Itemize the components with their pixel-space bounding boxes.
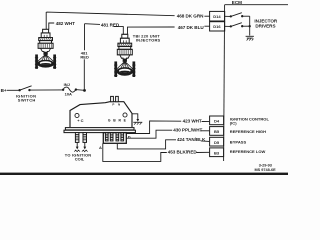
svg-text:B5: B5 xyxy=(214,129,220,134)
svg-text:INJECTORS: INJECTORS xyxy=(136,38,161,43)
wire 482 WHT (injector 1 feed) xyxy=(49,23,54,29)
tick 453 to B3 xyxy=(196,151,209,153)
terminal B5 (ECM) xyxy=(210,127,224,136)
wire 467 DK BLU (injector 2 to ECM D16) xyxy=(128,27,175,34)
wire 424 TAN/BLK xyxy=(117,140,176,149)
junction dot (fused feed) xyxy=(83,89,86,92)
svg-text:D16: D16 xyxy=(213,24,221,29)
svg-text:P N: P N xyxy=(112,103,121,107)
terminal B3 (ECM) xyxy=(210,148,224,157)
svg-text:423 WHT: 423 WHT xyxy=(183,119,202,124)
terminal D14 (ECM) xyxy=(210,11,225,21)
svg-text:430 PPL/WHT: 430 PPL/WHT xyxy=(173,128,202,133)
wire D16 to driver switch 2 xyxy=(225,25,231,27)
terminal D16 (ECM) xyxy=(210,22,225,31)
driver common wire xyxy=(249,16,251,35)
pin 1 xyxy=(105,133,108,141)
module coil pin 1 xyxy=(75,133,79,143)
injector 1 (TBI unit injector) xyxy=(35,29,56,69)
module base plate xyxy=(65,128,134,130)
tick 423 to D4 xyxy=(202,120,210,122)
svg-text:RED: RED xyxy=(80,54,89,59)
terminal D4 (ECM) xyxy=(210,116,224,125)
ECM enclosure top edge xyxy=(225,4,288,6)
svg-text:468 DK GRN: 468 DK GRN xyxy=(177,13,204,18)
svg-text:MS 9748-6E: MS 9748-6E xyxy=(255,168,277,172)
pin 2 xyxy=(110,133,113,141)
svg-text:REFERENCE HIGH: REFERENCE HIGH xyxy=(230,129,266,134)
module mounting hole left xyxy=(75,113,79,117)
wire B+ to ignition switch xyxy=(7,89,19,91)
svg-text:D4: D4 xyxy=(214,119,220,124)
wire switch to fuse xyxy=(31,89,63,91)
terminal D5 (ECM) xyxy=(210,137,224,146)
svg-text:SWITCH: SWITCH xyxy=(18,97,36,102)
svg-text:482 WHT: 482 WHT xyxy=(56,21,75,26)
ignition switch xyxy=(18,89,20,91)
module connector (pins to ECM) xyxy=(103,133,126,144)
ignition module body xyxy=(70,102,132,127)
svg-text:DRIVERS: DRIVERS xyxy=(255,23,275,28)
wire tick 468 to D14 xyxy=(204,15,209,17)
fuse INJ 10A xyxy=(62,89,64,91)
wire tick 481 RED to injector 2 xyxy=(113,27,123,35)
bottom border bar xyxy=(0,173,288,175)
svg-text:A: A xyxy=(99,145,102,150)
svg-text:B3: B3 xyxy=(214,151,220,156)
ECM ground xyxy=(246,35,254,37)
svg-text:COIL: COIL xyxy=(75,157,85,162)
tick 430 to B5 xyxy=(200,130,209,132)
tick 424 to D5 xyxy=(201,140,210,143)
svg-text:(IC): (IC) xyxy=(230,121,237,126)
wire to ignition coil 1 xyxy=(76,142,78,147)
wire 453 BLK/RED xyxy=(103,143,167,161)
svg-text:467 DK BLU: 467 DK BLU xyxy=(178,25,205,30)
svg-text:REFERENCE LOW: REFERENCE LOW xyxy=(230,149,266,154)
module tabs xyxy=(111,96,114,101)
svg-text:G B R E: G B R E xyxy=(108,119,127,123)
pin 3 xyxy=(116,133,119,141)
svg-text:453 BLK/RED: 453 BLK/RED xyxy=(168,150,198,155)
svg-text:+ C: + C xyxy=(77,118,83,123)
svg-text:INJ: INJ xyxy=(64,82,70,87)
svg-text:D14: D14 xyxy=(213,14,221,19)
wire 430 PPL/WHT xyxy=(126,130,172,138)
wire fuse to junction xyxy=(77,89,85,92)
svg-text:B+: B+ xyxy=(1,88,7,93)
svg-text:ECM: ECM xyxy=(232,0,242,5)
wire 468 DK GRN (injector 1 to ECM D14) xyxy=(46,12,174,29)
wire tick 467 to D16 xyxy=(204,25,209,27)
module coil pin 2 xyxy=(83,133,87,143)
injector driver switch 2 xyxy=(230,25,232,27)
pin 4 xyxy=(121,133,124,141)
wire 481 RED riser xyxy=(84,24,86,51)
svg-text:3-29-93: 3-29-93 xyxy=(259,164,272,168)
ECM enclosure left edge xyxy=(224,5,225,161)
wire 423 WHT xyxy=(126,121,181,134)
svg-text:10A: 10A xyxy=(65,92,72,97)
injector driver switch 1 xyxy=(230,15,232,17)
wire to ignition coil 2 xyxy=(84,142,86,147)
module mounting hole right xyxy=(123,113,127,117)
wire feed segment to 481 RED riser xyxy=(85,23,101,26)
svg-text:D5: D5 xyxy=(214,140,220,145)
svg-text:BYPASS: BYPASS xyxy=(230,140,247,145)
injector 2 (TBI unit injector) xyxy=(114,34,135,77)
wire D14 to driver switch 1 xyxy=(225,15,231,17)
module ground xyxy=(132,114,138,120)
svg-text:D: D xyxy=(128,135,131,140)
